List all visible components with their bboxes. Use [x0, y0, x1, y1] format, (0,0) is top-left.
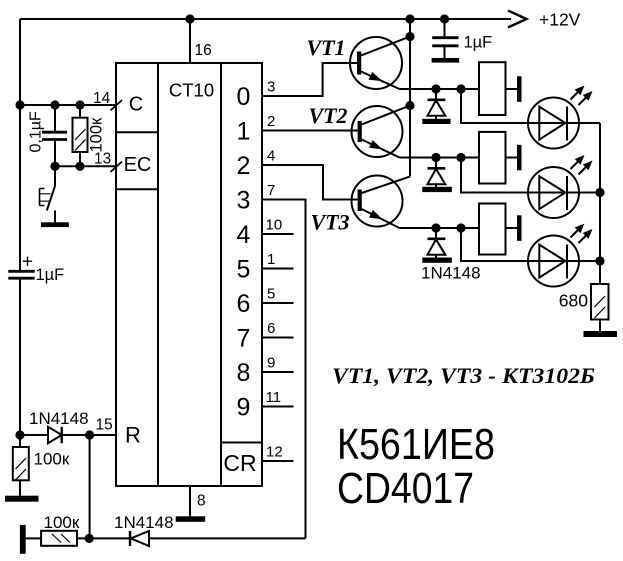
node R row left [15, 430, 24, 439]
wire to LED3 [461, 228, 600, 261]
wire output 1 (pin 2) to VT2 base [262, 130, 358, 132]
capacitor C5 1uF top right [432, 19, 458, 58]
svg-text:100к: 100к [34, 450, 70, 469]
ground under R4 [584, 331, 618, 337]
capacitor C1 0.1uF [42, 105, 67, 166]
ground bar bottom left [20, 525, 26, 554]
wire pin 16 [189, 19, 191, 63]
ground under VD1 [422, 119, 450, 124]
svg-text:11: 11 [266, 389, 282, 406]
svg-text:R: R [125, 423, 141, 448]
node R row right [85, 430, 94, 439]
wire output 3 (pin 7) down to bottom row [262, 200, 306, 539]
relay K2 [479, 132, 517, 184]
diode VD2 [428, 158, 446, 187]
svg-text:1N4148: 1N4148 [29, 409, 89, 428]
svg-text:+: + [22, 252, 33, 273]
resistor R1 100k [73, 105, 88, 166]
node top rail / C5 [440, 14, 449, 23]
ground under C5 [432, 58, 460, 63]
node bus LED2 [595, 188, 604, 197]
pushbutton SB1 [40, 166, 56, 222]
node row2 diode [431, 153, 440, 162]
svg-text:12: 12 [266, 444, 283, 461]
node top rail / collector rail [405, 14, 414, 23]
IC divider under C [116, 131, 158, 133]
svg-text:VT1, VT2, VT3 - КТ3102Б: VT1, VT2, VT3 - КТ3102Б [332, 363, 595, 388]
svg-text:VT1: VT1 [306, 35, 345, 60]
svg-text:C: C [129, 94, 143, 116]
ground under SB1 [41, 222, 69, 227]
ground under VD3 [422, 258, 452, 263]
svg-text:7: 7 [237, 325, 251, 353]
IC divider under EC [116, 188, 158, 190]
svg-text:1: 1 [267, 251, 275, 268]
wire to LED1 [461, 89, 600, 123]
node top rail / pin16 [185, 14, 194, 23]
svg-text:4: 4 [237, 221, 251, 249]
diode VD4 1N4148 [48, 427, 62, 443]
svg-text:100к: 100к [88, 117, 106, 153]
node C row / C1 [50, 100, 59, 109]
LED HL2 light arrows [571, 155, 593, 175]
wire output 2 (pin 4) to VT3 base [262, 165, 358, 200]
svg-text:7: 7 [267, 182, 275, 199]
svg-text:6: 6 [237, 290, 251, 318]
wire pin 8 to ground [189, 486, 191, 516]
wire emitter row 3 [400, 227, 480, 229]
diode VD5 1N4148 [130, 531, 306, 546]
wire emitter row 2 [400, 157, 480, 159]
resistor R2 100k [13, 435, 29, 496]
svg-text:К561ИЕ8: К561ИЕ8 [337, 420, 495, 469]
svg-text:EC: EC [124, 154, 152, 176]
wire LED cathode bus [599, 123, 601, 284]
wire to LED2 [461, 158, 600, 193]
capacitor C2 1uF electrolytic [8, 271, 34, 278]
svg-text:CR: CR [223, 450, 256, 476]
diode VD3 [428, 228, 446, 258]
svg-text:6: 6 [267, 320, 275, 337]
svg-text:1N4148: 1N4148 [114, 513, 174, 532]
wire C row (pin 14) [20, 104, 116, 106]
svg-text:1µF: 1µF [464, 34, 493, 52]
relay K2 bar [517, 145, 522, 171]
svg-text:8: 8 [197, 493, 206, 510]
node bus LED3 [595, 256, 604, 265]
transistor Q1 VT1 [350, 37, 410, 90]
diode VD1 [428, 89, 446, 119]
IC divider right column [220, 63, 222, 486]
svg-text:2: 2 [267, 113, 275, 130]
LED HL2 [528, 167, 579, 218]
LED HL3 [528, 236, 579, 287]
svg-text:16: 16 [195, 42, 212, 59]
node row3 led branch [456, 223, 465, 232]
wire output 0 (pin 3) to VT1 base [262, 63, 357, 96]
svg-text:2: 2 [237, 152, 251, 180]
svg-text:9: 9 [237, 394, 251, 422]
wire +12V top rail [20, 18, 511, 20]
svg-text:3: 3 [267, 79, 275, 96]
IC divider left column [157, 63, 159, 486]
ground under VD2 [422, 187, 452, 192]
svg-text:VT3: VT3 [310, 210, 349, 235]
dynamic input tick pin 13 [111, 162, 123, 173]
node EC row / R1 [75, 162, 84, 171]
relay K3 bar [517, 215, 522, 241]
svg-text:3: 3 [237, 187, 251, 215]
ground under R2 [5, 496, 39, 502]
node row1 led branch [456, 84, 465, 93]
node collector rail VT2 [405, 101, 414, 110]
svg-text:14: 14 [93, 90, 111, 107]
output digits 0-9 [237, 83, 251, 422]
wire collector rail [409, 19, 411, 177]
svg-text:8: 8 [237, 359, 251, 387]
wire R node down to bottom row [89, 435, 91, 538]
svg-text:15: 15 [96, 417, 113, 434]
pin stub wires outputs 4-9 and CR [262, 234, 294, 461]
svg-text:1: 1 [237, 118, 251, 146]
IC divider above CR [221, 442, 262, 444]
wire EC row (pin 13) [55, 165, 116, 167]
svg-text:CT10: CT10 [169, 80, 214, 101]
svg-text:CD4017: CD4017 [337, 464, 474, 513]
svg-text:4: 4 [267, 148, 275, 165]
wire R row [20, 434, 116, 436]
svg-text:5: 5 [267, 286, 275, 303]
svg-text:1µF: 1µF [36, 266, 65, 284]
svg-text:9: 9 [267, 355, 275, 372]
wire left vertical rail [19, 19, 21, 436]
resistor R3 100k horizontal [26, 531, 130, 546]
svg-text:5: 5 [237, 256, 251, 284]
pin number labels [266, 79, 283, 461]
node C row / R1 [75, 100, 84, 109]
ground pin 8 [176, 516, 206, 522]
svg-text:100к: 100к [44, 513, 80, 532]
svg-text:10: 10 [266, 217, 283, 234]
LED HL1 light arrows [571, 86, 593, 106]
node C row left [15, 100, 24, 109]
relay K3 [479, 204, 517, 255]
svg-text:680: 680 [559, 291, 588, 311]
LED HL1 [528, 98, 579, 149]
IC U1 CT10 outline [116, 63, 262, 486]
+12V arrow [508, 11, 527, 28]
node collector rail VT1 [405, 32, 414, 41]
svg-text:0,1µF: 0,1µF [28, 111, 45, 152]
node row2 led branch [456, 153, 465, 162]
node row3 diode [431, 223, 440, 232]
transistor Q3 VT3 [352, 176, 411, 229]
node row1 diode [431, 84, 440, 93]
dynamic input tick pin 14 [111, 100, 123, 111]
wire emitter row 1 [400, 88, 480, 90]
node EC row / C1 [50, 162, 59, 171]
node bottom row [85, 534, 94, 543]
transistor Q2 VT2 [352, 106, 411, 158]
svg-text:1N4148: 1N4148 [421, 264, 481, 283]
relay K1 bar [517, 76, 522, 102]
LED HL3 light arrows [571, 224, 593, 244]
relay K1 [479, 62, 517, 115]
svg-text:13: 13 [94, 151, 111, 168]
svg-text:0: 0 [237, 83, 251, 111]
resistor R4 680 [591, 284, 609, 331]
svg-text:VT2: VT2 [308, 103, 347, 128]
svg-text:+12V: +12V [539, 10, 581, 30]
